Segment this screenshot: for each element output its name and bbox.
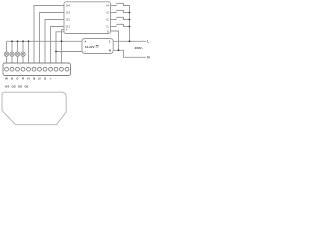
junction dots [11, 12, 130, 53]
terminal circles [5, 67, 69, 71]
wire L mains [113, 40, 146, 42]
svg-text:L: L [147, 40, 149, 44]
wire lamp4 drop [22, 41, 24, 63]
svg-text:12-24V: 12-24V [85, 45, 95, 49]
wire lamp1 drop [6, 41, 8, 63]
svg-text:O2: O2 [18, 85, 22, 89]
wire box plus pin to plus bus and terminal 11 [62, 30, 65, 63]
svg-text:O4: O4 [66, 4, 70, 8]
PSU DC symbol [96, 46, 99, 47]
svg-text:I2: I2 [106, 18, 109, 22]
wire O1 to terminal I4 [51, 27, 65, 64]
wire lamp3 drop [17, 41, 19, 63]
svg-text:-: - [56, 77, 57, 81]
wire input I3 to switch S3 [111, 12, 116, 14]
svg-text:S: S [107, 29, 109, 33]
svg-text:I3: I3 [106, 11, 109, 15]
switch S1 [116, 24, 123, 26]
wire O4 to terminal I1 [34, 6, 64, 64]
svg-text:O2: O2 [66, 18, 70, 22]
wire switch S2 to bus [124, 19, 130, 21]
lamp L4 [21, 52, 25, 56]
PSU box 12-24V [82, 39, 113, 54]
wire switch S1 to bus [124, 26, 130, 28]
svg-text:B: B [11, 77, 13, 81]
wire plus terminal drop [28, 41, 30, 63]
wire input I1 to switch S1 [111, 26, 116, 28]
svg-text:O4: O4 [5, 85, 9, 89]
wire box S pin to N [111, 31, 119, 50]
wire O2 to terminal I3 [45, 20, 64, 64]
wire input I2 to switch S2 [111, 19, 116, 21]
wire switch bus vertical [124, 6, 130, 42]
lamp L3 [15, 52, 19, 56]
wire switch S3 to bus [124, 12, 130, 14]
svg-text:I4: I4 [106, 4, 109, 8]
switch S2 [116, 17, 123, 19]
svg-text:O3: O3 [66, 11, 70, 15]
background [0, 0, 150, 128]
svg-text:W: W [5, 77, 8, 81]
device body octagon [2, 92, 66, 125]
svg-text:I1: I1 [106, 25, 109, 29]
controller box U1 [64, 2, 111, 34]
switch S3 [116, 10, 123, 12]
wire input I4 to switch S4 [111, 5, 116, 7]
svg-text:O3: O3 [11, 85, 15, 89]
switch S4 [116, 3, 123, 5]
svg-text:O1: O1 [24, 85, 28, 89]
wire O3 to terminal I2 [40, 13, 65, 64]
svg-text:G: G [16, 77, 18, 81]
lamp L2 [10, 52, 14, 56]
wire plus bus [7, 40, 83, 42]
svg-text:N: N [109, 49, 111, 53]
lamp L1 [4, 52, 8, 56]
svg-text:230V~: 230V~ [135, 46, 144, 50]
svg-text:+: + [66, 28, 68, 32]
wire lamp2 drop [11, 41, 13, 63]
switch contact points [115, 5, 124, 27]
wire box minus pin to terminal minus [56, 32, 64, 63]
svg-text:+: + [84, 40, 86, 44]
wire N mains [113, 50, 146, 57]
terminal labels row 2 O4 O3 O2 O1 [5, 85, 29, 89]
wire minus line to PSU [56, 51, 82, 53]
terminal labels row 1 [5, 77, 56, 81]
svg-text:L: L [109, 40, 111, 44]
svg-text:N: N [147, 56, 150, 60]
svg-text:-: - [84, 49, 85, 53]
svg-text:R: R [22, 77, 24, 81]
terminal strip [3, 63, 71, 76]
